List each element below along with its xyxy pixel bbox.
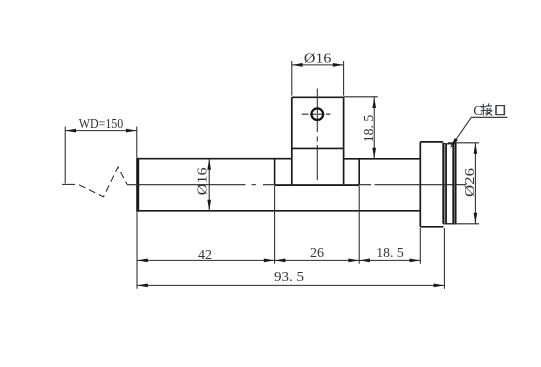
svg-text:18. 5: 18. 5 — [376, 246, 404, 261]
svg-text:26: 26 — [310, 246, 324, 261]
svg-text:WD=150: WD=150 — [79, 117, 124, 132]
svg-text:Ø26: Ø26 — [463, 168, 478, 197]
svg-text:Ø16: Ø16 — [304, 51, 332, 66]
svg-text:93. 5: 93. 5 — [274, 270, 304, 285]
svg-text:18. 5: 18. 5 — [362, 115, 377, 143]
svg-text:Ø16: Ø16 — [195, 167, 210, 195]
svg-text:42: 42 — [198, 248, 212, 263]
